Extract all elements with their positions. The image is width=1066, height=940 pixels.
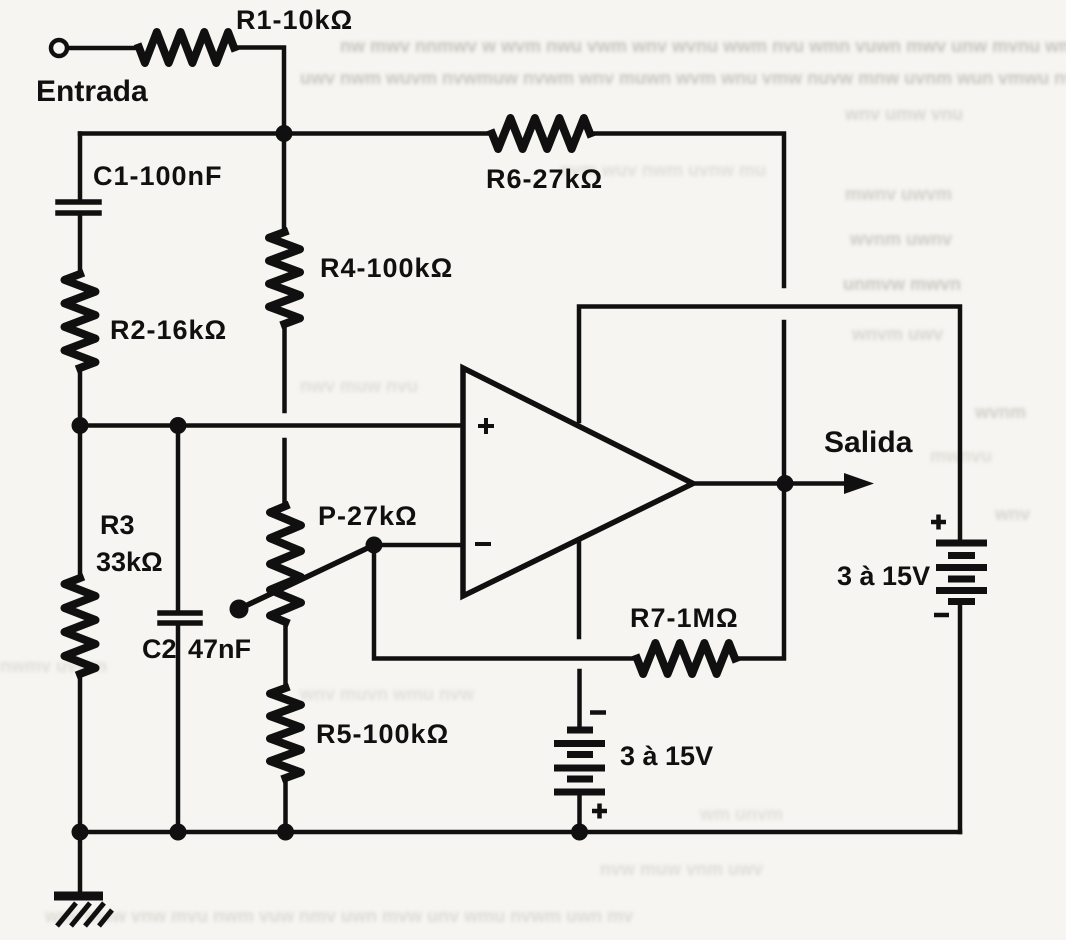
capacitor C1 bbox=[58, 199, 99, 205]
svg-text:nwv muw nvu: nwv muw nvu bbox=[300, 376, 418, 396]
svg-text:R1-10kΩ: R1-10kΩ bbox=[236, 5, 353, 35]
ground bbox=[54, 896, 112, 926]
svg-text:wnvm uwv: wnvm uwv bbox=[851, 324, 943, 344]
wire R2 to node bbox=[78, 368, 83, 426]
wire output bbox=[693, 481, 785, 486]
battery B1 minus sign bbox=[934, 613, 949, 618]
node rail R5 bbox=[277, 824, 294, 841]
svg-text:wnv: wnv bbox=[994, 504, 1030, 524]
wire left column down to C1 bbox=[78, 134, 83, 199]
battery B2 plus sign bbox=[592, 809, 607, 814]
wire ground stub bbox=[78, 832, 83, 892]
resistor R5 bbox=[270, 688, 301, 778]
node output bbox=[777, 475, 794, 492]
resistor R2 bbox=[65, 274, 96, 368]
svg-text:wnv muw vnw mvu nwm vuw nmv uw: wnv muw vnw mvu nwm vuw nmv uwn mvw unv … bbox=[44, 906, 633, 926]
svg-text:uwv nwm wuvm nvwmuw nvwm wnv m: uwv nwm wuvm nvwmuw nvwm wnv muwn wvm wn… bbox=[300, 68, 1066, 88]
svg-text:Entrada: Entrada bbox=[36, 75, 148, 108]
node top (R1/R4/R6) bbox=[276, 125, 293, 142]
svg-text:wvnm: wvnm bbox=[974, 402, 1026, 422]
wire R1 to corner bbox=[234, 48, 284, 134]
resistor R1 bbox=[139, 32, 234, 63]
svg-text:R3: R3 bbox=[100, 510, 135, 540]
wire crossing to potentiometer bbox=[282, 440, 287, 506]
svg-text:Salida: Salida bbox=[824, 426, 913, 459]
resistor R6 bbox=[492, 118, 590, 149]
svg-text:R6-27kΩ: R6-27kΩ bbox=[486, 164, 603, 194]
input terminal circle bbox=[51, 40, 67, 56]
potentiometer wiper arm bbox=[239, 545, 374, 609]
wire P to R5 bbox=[283, 622, 288, 688]
battery B1 right plates bbox=[936, 540, 987, 547]
battery B1 plus sign bbox=[931, 520, 946, 525]
svg-text:3 à 15V: 3 à 15V bbox=[837, 561, 930, 591]
op-amp plus input sign bbox=[478, 424, 494, 428]
resistor R7 bbox=[637, 643, 735, 674]
wire C2 branch lower bbox=[176, 626, 181, 832]
output arrowhead bbox=[844, 473, 874, 494]
wire top node horizontal bbox=[80, 131, 492, 136]
svg-text:wnv muvn wmu nvw: wnv muvn wmu nvw bbox=[299, 684, 475, 704]
svg-text:R7-1MΩ: R7-1MΩ bbox=[630, 603, 739, 633]
wire noninverting input line bbox=[80, 423, 463, 428]
svg-text:unmvw mwvn: unmvw mwvn bbox=[843, 274, 961, 294]
wire R6 to corner down bbox=[590, 134, 784, 287]
resistor R3 bbox=[65, 578, 96, 674]
wire right battery to rail bbox=[958, 602, 963, 832]
svg-text:P-27kΩ: P-27kΩ bbox=[318, 501, 418, 531]
battery B2 minus sign bbox=[590, 710, 606, 715]
svg-text:47nF: 47nF bbox=[188, 634, 251, 664]
svg-text:wnv umw vnu: wnv umw vnu bbox=[844, 104, 963, 124]
ground rail bbox=[80, 830, 960, 835]
output arrow bbox=[785, 481, 848, 486]
op-amp minus input sign bbox=[475, 542, 491, 546]
wire bottom battery to rail bbox=[577, 793, 582, 832]
wire R4 to crossing gap bbox=[282, 324, 287, 411]
wire R3 to ground rail bbox=[78, 674, 83, 832]
svg-text:wvnm uwnv: wvnm uwnv bbox=[849, 229, 952, 249]
wire R6 branch lower segment to output node bbox=[782, 322, 787, 484]
svg-text:R2-16kΩ: R2-16kΩ bbox=[110, 315, 227, 345]
svg-text:C2: C2 bbox=[142, 634, 177, 664]
wiper terminal dot bbox=[230, 600, 249, 619]
resistor R4 bbox=[269, 232, 300, 324]
potentiometer P track bbox=[270, 506, 301, 622]
wire input to R1 bbox=[68, 46, 139, 51]
node rail battery bbox=[571, 824, 588, 841]
wire R7 to output node bbox=[735, 484, 784, 659]
wire middle column to R4 bbox=[282, 134, 287, 233]
svg-text:R4-100kΩ: R4-100kΩ bbox=[320, 253, 453, 283]
node rail C2 bbox=[170, 824, 187, 841]
wire feedback down and right bbox=[374, 545, 637, 659]
wire node to R3 bbox=[78, 426, 83, 579]
wire R5 to rail bbox=[283, 778, 288, 832]
capacitor C2 bbox=[160, 610, 200, 616]
V+ supply wire to right battery bbox=[579, 307, 960, 543]
node rail left bbox=[72, 824, 89, 841]
svg-text:C1-100nF: C1-100nF bbox=[93, 161, 223, 191]
svg-text:3 à 15V: 3 à 15V bbox=[620, 741, 713, 771]
svg-text:nvw muw vnm uwv: nvw muw vnm uwv bbox=[600, 859, 763, 879]
node C2 top bbox=[170, 417, 187, 434]
node left + input bbox=[72, 417, 89, 434]
V- supply wire upper bbox=[577, 540, 582, 637]
svg-text:mwnv uwvm: mwnv uwvm bbox=[845, 184, 952, 204]
wire wiper node to inverting input bbox=[374, 543, 463, 548]
V- supply wire lower to battery bbox=[577, 671, 582, 728]
wire C2 branch upper bbox=[176, 426, 181, 611]
wire C1 to R2 bbox=[78, 216, 83, 274]
svg-text:nw mwv nnmwv w wvm nwu vwm wnv: nw mwv nnmwv w wvm nwu vwm wnv wvnu wwm … bbox=[340, 36, 1066, 56]
battery B2 bottom plates bbox=[567, 727, 593, 734]
svg-text:R5-100kΩ: R5-100kΩ bbox=[316, 719, 449, 749]
svg-text:wm unvm: wm unvm bbox=[699, 804, 783, 824]
op-amp U1 bbox=[463, 368, 693, 596]
svg-text:33kΩ: 33kΩ bbox=[96, 547, 163, 577]
node wiper junction bbox=[366, 537, 383, 554]
